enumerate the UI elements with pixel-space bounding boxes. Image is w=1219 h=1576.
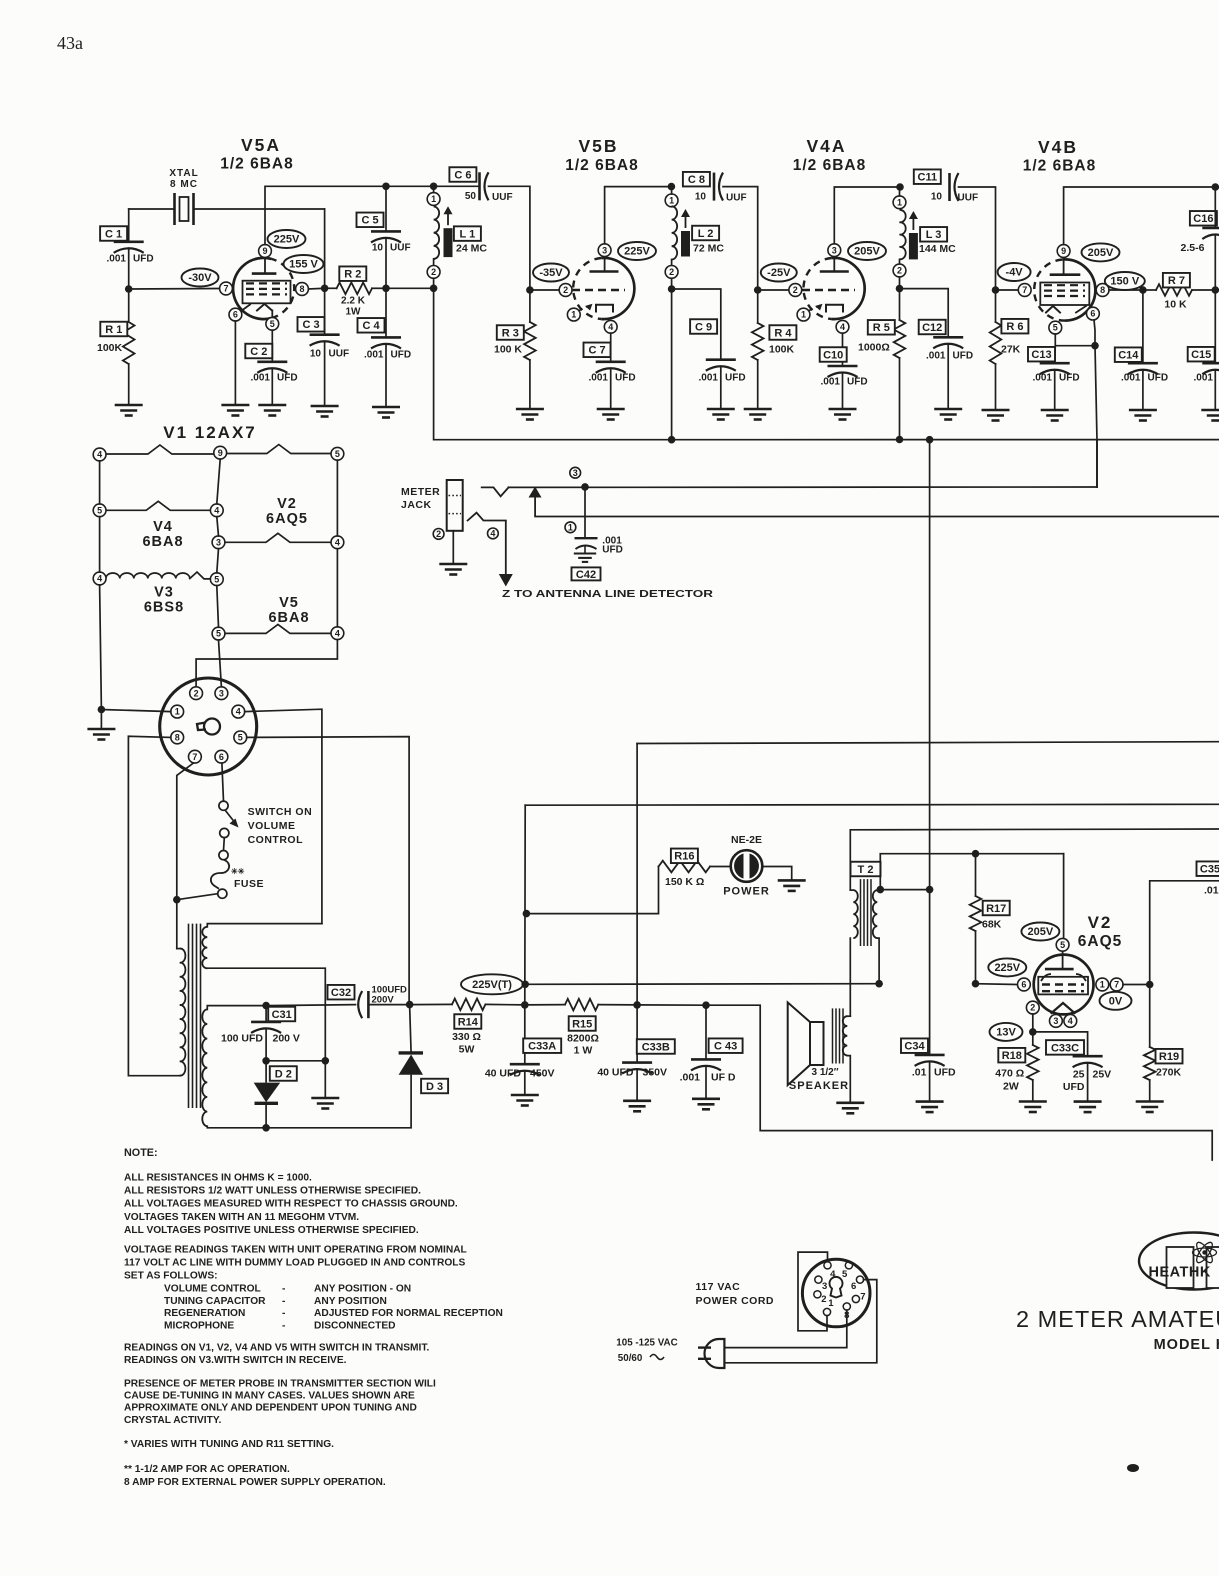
svg-text:R 3: R 3 [502,327,519,339]
svg-text:9: 9 [262,246,267,256]
inductor L1 label [454,226,481,241]
svg-text:205V: 205V [854,246,880,258]
svg-text:L 1: L 1 [460,229,476,241]
resistor R17 label [983,901,1010,916]
voltage 205V V2 plate [1021,923,1059,941]
heater V3 6BS8 filament coil [106,573,190,579]
wire L3 node to R5 [899,289,901,320]
ground C9 [707,409,735,420]
svg-text:8200Ω: 8200Ω [567,1033,599,1045]
ground R18 [1019,1102,1047,1113]
wire antenna detector arrow [505,521,507,576]
heater V1 left filament [106,445,214,454]
wire L2 node to C9 [672,289,721,360]
capacitor C43 label [709,1038,743,1053]
svg-text:40 UFD: 40 UFD [485,1068,522,1080]
wire node to heater-gnd line [266,1060,325,1062]
tube V5B cathode [596,305,613,312]
wire L2 node to bottom bus [671,289,673,440]
wire crystal left lead [129,208,175,210]
wire socket pin4 right [245,709,322,923]
wire V4B plate to bus [1064,187,1216,245]
wire C32 to D3 node [368,1004,409,1006]
svg-text:0V: 0V [1109,996,1123,1008]
ground R19 [1136,1102,1164,1113]
svg-text:10 K: 10 K [1164,299,1187,311]
diode D3 [399,1055,423,1075]
svg-text:7: 7 [192,752,197,762]
voltage 13V [990,1023,1023,1041]
wire L1 node to bottom bus [434,288,672,439]
capacitor C9 .001 [706,358,736,361]
ground C34 [916,1102,944,1113]
capacitor C33C label [1046,1040,1084,1055]
wire C13 branch [1054,346,1057,364]
wire C33A to ground [524,1072,526,1096]
node C43 [702,1001,710,1009]
wire node to R15 [525,1004,565,1006]
svg-text:-30V: -30V [188,272,212,284]
svg-text:.01: .01 [912,1067,927,1079]
svg-text:-: - [282,1308,285,1319]
transformer T1 HV winding [202,1009,207,1126]
wire socket pin5 right [247,737,409,1005]
tube V5A envelope [233,258,271,319]
svg-text:SWITCH ON: SWITCH ON [248,806,313,818]
capacitor C12 label [919,320,946,335]
svg-text:C12: C12 [922,322,942,334]
meter jack contact arm upper [482,487,509,496]
resistor R3 100K [524,322,536,360]
resistor R1 100K [123,322,135,364]
wire C33B node up [636,744,638,1005]
node L3 bottom [896,285,904,293]
wire L3 node to C12 [900,289,949,338]
ground C42 [574,554,596,562]
svg-text:1/2 6BA8: 1/2 6BA8 [793,157,866,174]
ink speck [1127,1464,1139,1472]
svg-text:1: 1 [175,707,180,717]
svg-text:NOTE:: NOTE: [124,1147,158,1159]
svg-text:3: 3 [573,468,578,478]
ground C12 [934,409,962,420]
transformer T2 core [860,879,862,946]
ground C10 [829,409,857,420]
capacitor C33B 40UFD [622,1061,652,1064]
resistor R5 1000 ohm [894,320,906,358]
svg-text:TUNING CAPACITOR: TUNING CAPACITOR [164,1296,266,1307]
svg-text:7: 7 [1114,980,1119,990]
node L1 bottom [430,285,438,293]
svg-text:50/60: 50/60 [618,1353,643,1364]
wire C5 top lead [385,186,387,231]
wire node to R19 [1149,985,1151,1048]
node T2 primary top [877,886,885,894]
transformer T1 core [188,924,190,1108]
svg-text:.001: .001 [1033,373,1053,384]
ground C14 [1129,410,1157,421]
wire C8 to V4A grid [723,187,758,290]
wire C16 top lead [1214,187,1216,228]
wire pin7 V2 right [1123,984,1150,986]
AC plug [705,1339,725,1368]
wire heater left column b [99,517,101,572]
svg-text:1: 1 [571,310,576,320]
switch arm [225,810,236,824]
svg-text:VOLTAGES TAKEN WITH AN 11 MEGO: VOLTAGES TAKEN WITH AN 11 MEGOHM VTVM. [124,1212,359,1223]
wire L3 coil to pin2 [899,259,901,264]
capacitor C6 50uuF [478,172,481,200]
node R17 bottom [972,980,980,988]
capacitor C7 label [584,343,611,358]
wire R5 to bottom bus [899,358,901,440]
resistor R15 8200 ohm [565,999,598,1011]
pin 7 V4B grid [1018,284,1031,297]
svg-text:6: 6 [851,1281,856,1292]
svg-text:V3: V3 [154,585,174,601]
wire T2 secondary top rail [850,829,1219,890]
ground speaker [836,1103,864,1114]
svg-text:1/2 6BA8: 1/2 6BA8 [565,157,638,174]
node grid V4B [992,286,1000,294]
pin 1 L2 [665,194,678,207]
resistor R6 27K [990,322,1002,364]
svg-text:2: 2 [793,285,798,295]
capacitor C33C 25UFD [1073,1055,1103,1058]
power socket pin 1 [823,1308,830,1315]
wire C3 to ground [324,342,326,406]
heater pin 4 V3 [93,572,106,585]
wire B plus rail mid [637,742,1219,744]
svg-text:JACK: JACK [401,499,432,511]
node secondary ground [322,1057,330,1065]
wire HV winding bottom lead [207,1126,266,1128]
svg-text:5: 5 [238,733,243,743]
svg-text:APPROXIMATE ONLY AND DEPENDEN: APPROXIMATE ONLY AND DEPENDENT UPON TUNI… [124,1403,417,1414]
svg-text:1: 1 [897,197,902,207]
wire C34 top lead [929,890,931,1055]
inductor L3 coil [900,210,906,259]
svg-text:350V: 350V [643,1067,668,1079]
inductor L3 label [920,227,947,242]
svg-text:25V: 25V [1093,1069,1112,1081]
wire heater mid column e [219,640,222,687]
svg-text:R 4: R 4 [774,327,792,339]
svg-text:144 MC: 144 MC [919,243,956,255]
wire crystal right lead [194,208,325,210]
svg-text:4: 4 [608,322,613,332]
svg-text:C 7: C 7 [588,345,605,357]
wire meter line upper [509,486,1098,488]
tube V5A grid box and grids [243,281,291,304]
wire heater right column b [336,549,338,627]
wire C42 top lead [584,487,586,538]
wire C33C to ground [1087,1064,1089,1102]
svg-text:.001: .001 [1194,373,1214,384]
svg-text:C 43: C 43 [714,1041,737,1053]
tube V5B grid [572,289,625,291]
svg-text:117 VOLT AC LINE WITH DUMMY LO: 117 VOLT AC LINE WITH DUMMY LOAD PLUGGED… [124,1258,465,1269]
wire B plus rail upper [525,803,1219,806]
svg-text:4: 4 [830,1269,836,1280]
node R16 tap [523,910,531,918]
wire node to ground [324,1061,326,1098]
pin 2 L2 [665,266,678,279]
wire C16 bottom lead [1214,236,1216,291]
svg-text:3 1/2″: 3 1/2″ [811,1067,838,1078]
wire HV bottom to D3 [266,1076,411,1128]
capacitor C42 label [572,567,601,580]
meter jack pin 3 [570,467,581,478]
resistor R3 label [497,325,524,340]
svg-text:2: 2 [1030,1003,1035,1013]
svg-text:V5A: V5A [241,135,281,155]
capacitor C5 label [357,213,384,228]
voltage -25V [761,264,797,282]
node R2-C4 [382,285,390,293]
wire grid node to pin7 V4B [996,289,1019,291]
pin 8 V5A [296,283,309,296]
heater pin 4 V5 [331,627,344,640]
svg-text:ADJUSTED FOR NORMAL RECEPTION: ADJUSTED FOR NORMAL RECEPTION [314,1308,503,1319]
heater pin 4 V1 [93,448,106,461]
svg-text:.001: .001 [926,351,946,362]
svg-text:MICROPHONE: MICROPHONE [164,1320,234,1331]
wire C31 node to C32 [266,1005,355,1006]
wire L1 coil to pin2 [433,259,435,266]
resistor R2 label [339,266,366,281]
svg-text:2: 2 [897,266,902,276]
svg-text:270K: 270K [1156,1067,1182,1079]
svg-text:UUF: UUF [390,243,411,254]
svg-text:7: 7 [1022,285,1027,295]
svg-text:105 -125 VAC: 105 -125 VAC [616,1338,677,1349]
power socket pin 8 [843,1303,850,1310]
node R17 top [972,850,980,858]
capacitor C12 .001 [933,336,963,339]
node L3 top [896,183,904,191]
pin 6 V4B [1087,307,1100,320]
wire grid node to R6 [995,290,997,322]
wire pin6 V5A to ground [234,321,236,405]
capacitor C32 100UFD 200V [358,991,362,1018]
svg-text:ALL RESISTANCES IN OHMS K =: ALL RESISTANCES IN OHMS K = 1000. [124,1173,312,1184]
capacitor C1 label [100,226,127,241]
svg-text:** 1-1/2 AMP FOR AC OPERATION: ** 1-1/2 AMP FOR AC OPERATION. [124,1464,290,1475]
capacitor C34 label [901,1038,928,1053]
svg-text:450V: 450V [530,1068,555,1080]
svg-text:VOLTAGE READINGS TAKEN WITH UN: VOLTAGE READINGS TAKEN WITH UNIT OPERATI… [124,1245,467,1256]
capacitor C35 label [1197,861,1219,876]
wire pin8 V4B to node [1109,289,1143,291]
svg-text:9: 9 [1061,246,1066,256]
wire lamp to ground [763,867,792,881]
ground heater column [87,729,115,740]
node T2 primary bottom [875,980,883,988]
wire C16 node to C15 [1214,290,1216,363]
heater pin 9 V1 [214,446,227,459]
capacitor C6 label [449,167,476,182]
svg-text:5: 5 [1060,940,1065,950]
wire R1 to ground [128,364,130,405]
svg-text:10: 10 [931,192,943,203]
svg-text:REGENERATION: REGENERATION [164,1308,245,1319]
svg-text:100K: 100K [97,342,123,354]
svg-text:330 Ω: 330 Ω [452,1031,481,1043]
wire power socket jumper 4-1 [798,1252,828,1331]
svg-text:68K: 68K [982,919,1002,931]
voltage 0V V2 [1100,992,1132,1010]
socket pin 7 [189,750,202,763]
wire R15 to C33B node [598,1004,637,1006]
tube V5B pin1 lead [578,306,590,312]
wire C2 to ground [271,369,273,405]
svg-text:UFD: UFD [391,350,412,361]
svg-text:1: 1 [568,522,573,532]
tube V2 plate [1045,968,1074,971]
svg-text:4: 4 [236,707,241,717]
wire heater winding top lead [207,924,322,927]
wire R7 to C16 node [1192,289,1215,291]
node pin8 V5A [321,285,329,293]
tube V4B envelope [1062,259,1095,320]
svg-text:4: 4 [214,505,219,515]
capacitor C11 10uuF [948,173,951,201]
svg-text:R16: R16 [674,851,694,863]
wire R18 to ground [1032,1080,1034,1102]
svg-text:.001: .001 [821,377,841,388]
svg-text:6AQ5: 6AQ5 [266,511,308,527]
node C5 top [382,183,390,191]
wire fuse bottom to primary node [177,894,218,900]
wire B plus to T2 row [525,983,879,986]
svg-text:72 MC: 72 MC [693,243,724,255]
svg-text:UUF: UUF [329,349,350,360]
wire node to L1 bottom [386,287,434,289]
svg-text:CRYSTAL ACTIVITY.: CRYSTAL ACTIVITY. [124,1415,222,1426]
svg-text:NE-2E: NE-2E [731,834,762,846]
wire grid node to R3 [529,290,531,322]
wire heater right column c [196,640,337,687]
pin 7 V5A grid [220,282,233,295]
ground secondary [311,1098,339,1109]
svg-text:3: 3 [216,537,221,547]
svg-text:VOLUME CONTROL: VOLUME CONTROL [164,1284,261,1295]
capacitor C31 label [268,1007,295,1022]
svg-text:25: 25 [1073,1069,1085,1081]
speaker voice coil core [832,1008,834,1063]
ground C2 [258,405,286,416]
fuse contact top [219,851,228,860]
svg-text:5: 5 [214,574,219,584]
svg-text:ANY POSITION: ANY POSITION [314,1296,387,1307]
svg-text:43a: 43a [57,33,83,53]
svg-text:7: 7 [860,1292,865,1303]
tube V2 beam plates and grids [1041,974,1086,981]
svg-text:4: 4 [97,450,102,460]
svg-text:1 W: 1 W [574,1045,593,1057]
wire L3 pin1 lead [899,187,901,196]
wire T2 primary bottom lead [877,938,879,984]
node C31 top [262,1002,270,1010]
wire node to R14 [410,1003,452,1005]
pin 1 V4A [797,308,810,321]
capacitor C14 .001 [1128,362,1158,365]
pin 5 V4B [1049,321,1062,334]
wire L3 pin2 to node [899,277,901,289]
svg-text:R 2: R 2 [344,269,361,281]
resistor R18 label [998,1048,1025,1063]
svg-text:CAUSE DE-TUNING IN MANY CASES.: CAUSE DE-TUNING IN MANY CASES. VALUES SH… [124,1391,415,1402]
tube V4A plate [820,270,849,273]
svg-text:UUF: UUF [726,193,747,204]
wire crystal to pin8 node [324,209,326,288]
wire C4 to ground [385,345,387,407]
tube V2 envelope [1034,955,1094,1015]
power socket keyway [829,1277,842,1298]
capacitor C33A label [523,1038,561,1053]
svg-text:READINGS ON V1, V2, V4 AND V5: READINGS ON V1, V2, V4 AND V5 WITH SWITC… [124,1343,429,1354]
wire C31 bottom lead [265,1030,267,1061]
svg-text:205V: 205V [1088,247,1114,259]
tube V5B plate [590,270,619,273]
svg-text:-4V: -4V [1006,267,1024,279]
node bus to C34 line [926,436,934,444]
svg-text:UFD: UFD [133,254,154,265]
socket pin 1 [171,705,184,718]
tube V4B plate [1050,273,1081,276]
svg-text:6AQ5: 6AQ5 [1078,933,1123,950]
capacitor C31 100UFD [251,1021,281,1024]
capacitor C2 [257,360,287,363]
svg-text:C32: C32 [331,987,351,999]
pin 8 V4B [1096,284,1109,297]
svg-text:UFD: UFD [1063,1081,1085,1093]
wire node to R2 [325,287,337,289]
wire node to C4 [385,288,387,337]
wire heater left column a [99,461,101,504]
wire plate rail down to pin5 [1063,854,1065,947]
tube socket V1 outline [160,678,257,775]
diode D2 [265,1061,267,1083]
svg-text:.001: .001 [251,373,271,384]
ground C13 [1041,410,1069,421]
capacitor C3 10uuF [310,333,340,336]
heater pin 5 V1 [331,447,344,460]
svg-text:7: 7 [223,284,228,294]
wire primary bottom lead [179,1075,181,1077]
resistor R16 label [671,849,698,864]
heater V5 filament [225,624,332,633]
pin 9 V4B plate [1057,245,1070,258]
wire R19 to ground [1149,1080,1151,1102]
heater pin 4 V4 [210,504,223,517]
tube V5B envelope [601,258,634,319]
pin 1 V5B [567,308,580,321]
socket pin 4 [232,705,245,718]
svg-text:1: 1 [431,194,436,204]
wire C33A node up [524,805,526,1005]
resistor R16 150K [659,861,711,873]
capacitor C16 label [1190,211,1217,226]
svg-text:V4: V4 [153,519,173,535]
socket pin 3 [215,687,228,700]
svg-text:10: 10 [372,243,384,254]
svg-text:100K: 100K [769,344,795,356]
meter jack contact arm lower [468,513,506,521]
svg-text:2: 2 [669,267,674,277]
node grid V5B [526,286,534,294]
